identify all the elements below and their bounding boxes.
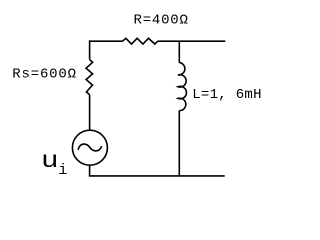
- resistor R1 R=400 zigzag: [122, 38, 157, 44]
- wire left vertical middle: [89, 95, 91, 131]
- label u (source voltage): [41, 147, 59, 173]
- svg-text:R=400Ω: R=400Ω: [134, 13, 188, 29]
- inductor L1 coil: [178, 63, 186, 111]
- voltage source U1 circle: [72, 130, 107, 165]
- resistor R2 Rs=600 zigzag: [86, 59, 93, 94]
- voltage source sine symbol: [78, 144, 102, 151]
- wire right vertical lower: [178, 111, 180, 176]
- svg-text:u: u: [41, 147, 59, 173]
- wire bottom horizontal: [89, 175, 225, 177]
- wire left vertical upper: [89, 40, 91, 59]
- svg-text:i: i: [58, 162, 67, 179]
- wire right vertical upper: [178, 41, 180, 62]
- wire source to bottom: [89, 165, 91, 176]
- svg-text:Rs=600Ω: Rs=600Ω: [12, 67, 76, 83]
- svg-text:L=1, 6mH: L=1, 6mH: [192, 87, 261, 103]
- wire top-right horizontal: [158, 40, 226, 42]
- wire top-left horizontal: [90, 40, 123, 42]
